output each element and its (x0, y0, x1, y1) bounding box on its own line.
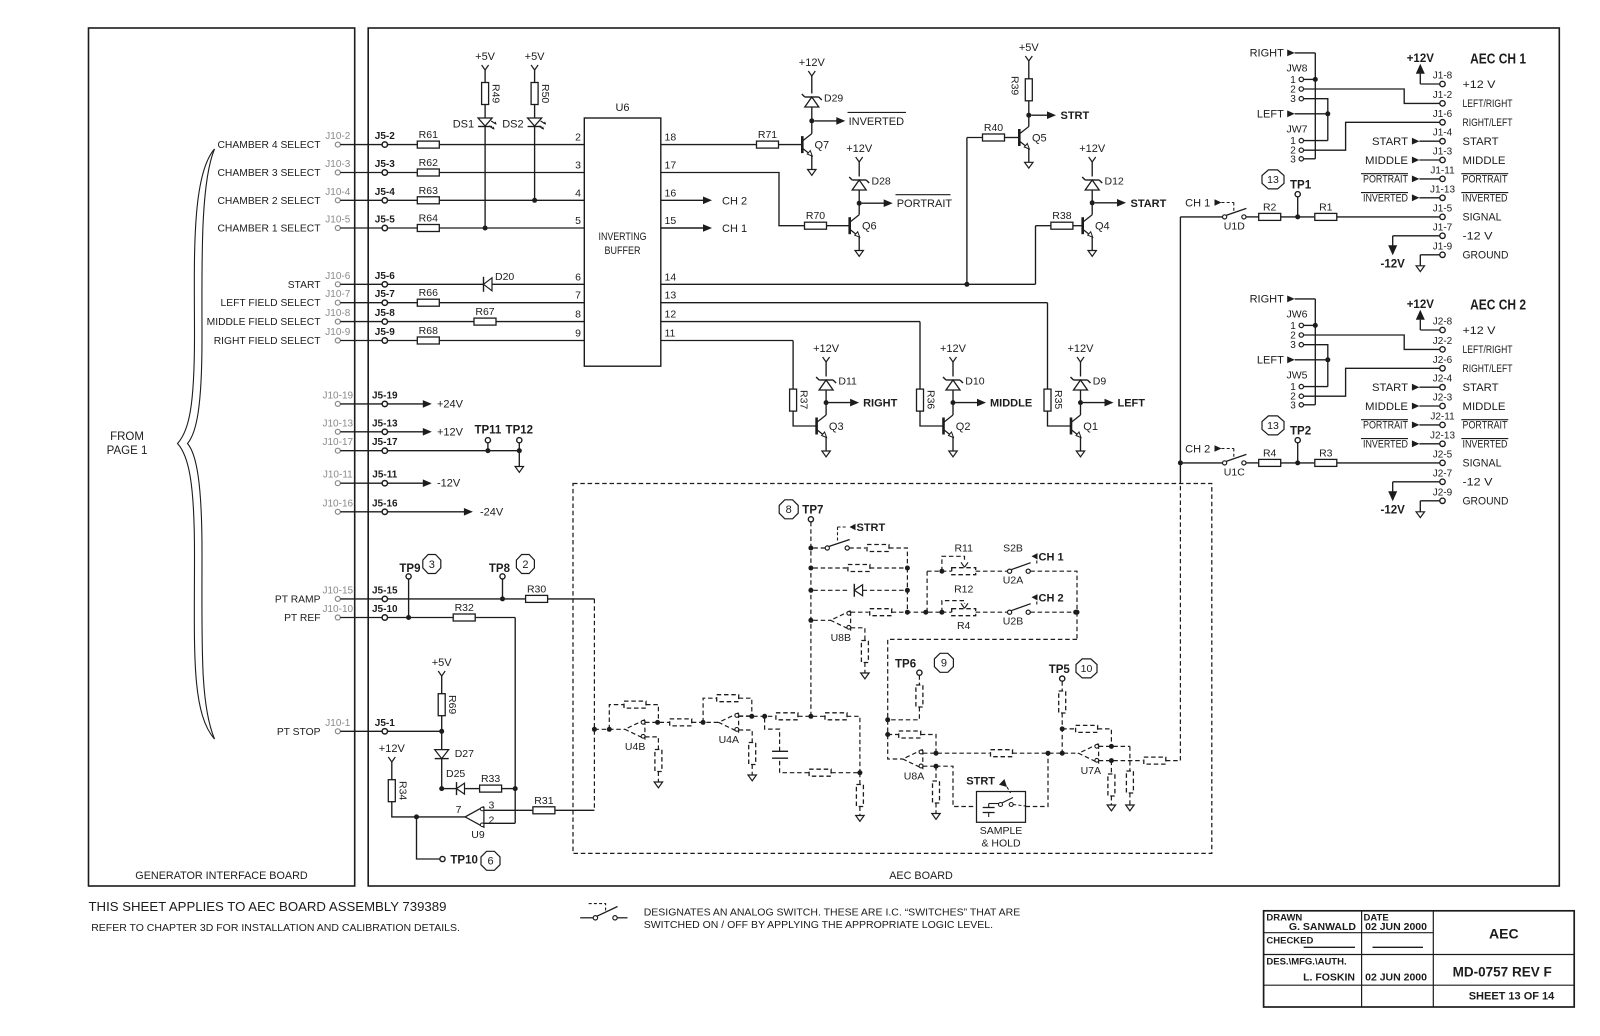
svg-text:SWITCHED ON / OFF BY APPLYING: SWITCHED ON / OFF BY APPLYING THE APPROP… (644, 919, 993, 931)
wire (1028, 149, 1030, 163)
svg-text:R40: R40 (984, 122, 1003, 134)
wire (952, 437, 954, 451)
svg-text:J5-4: J5-4 (375, 187, 395, 198)
svg-text:J5-15: J5-15 (372, 585, 398, 596)
svg-text:J5-3: J5-3 (375, 159, 395, 170)
svg-text:LEFT/RIGHT: LEFT/RIGHT (1463, 98, 1513, 110)
svg-text:PAGE 1: PAGE 1 (107, 445, 148, 457)
svg-text:THIS SHEET APPLIES TO AEC BOAR: THIS SHEET APPLIES TO AEC BOARD ASSEMBLY… (89, 899, 447, 914)
svg-text:INVERTED: INVERTED (1463, 439, 1508, 451)
wire (dashed) (870, 567, 908, 569)
svg-text:J2-7: J2-7 (1433, 468, 1453, 479)
svg-text:TP10: TP10 (450, 855, 478, 867)
svg-text:R4: R4 (1263, 447, 1277, 459)
wire (dashed) (798, 715, 824, 717)
svg-text:TP8: TP8 (489, 563, 511, 575)
wire (dashed) (813, 589, 848, 591)
svg-text:AEC CH 1: AEC CH 1 (1470, 52, 1526, 68)
wire (858, 237, 860, 251)
svg-text:TP1: TP1 (1290, 180, 1312, 192)
node (905, 588, 910, 593)
ground (1126, 805, 1134, 811)
svg-text:LEFT FIELD SELECT: LEFT FIELD SELECT (221, 298, 322, 309)
svg-text:PORTRAIT: PORTRAIT (1463, 420, 1508, 432)
svg-text:02 JUN 2000: 02 JUN 2000 (1365, 921, 1427, 933)
sample & hold box (977, 792, 1026, 823)
wire (dashed) (1061, 713, 1063, 753)
wire (555, 809, 594, 811)
svg-text:CHECKED: CHECKED (1266, 936, 1313, 947)
node (1075, 610, 1080, 615)
resistor R64 (417, 225, 439, 232)
node (939, 610, 944, 615)
wire (1314, 53, 1316, 159)
op-amp U8B (831, 611, 851, 630)
svg-text:LEFT/RIGHT: LEFT/RIGHT (1463, 344, 1513, 356)
node (808, 588, 813, 593)
svg-text:R12: R12 (954, 584, 973, 596)
wire (441, 716, 443, 731)
wire (1304, 324, 1316, 326)
wire (825, 403, 827, 415)
node (808, 714, 813, 719)
svg-text:J2-5: J2-5 (1433, 449, 1453, 460)
wire (dashed) (935, 766, 937, 781)
wire (dashed) (888, 707, 920, 720)
svg-text:CHAMBER 2 SELECT: CHAMBER 2 SELECT (218, 196, 322, 207)
resistor R4 (1259, 459, 1281, 466)
node (1060, 726, 1065, 731)
node (857, 770, 862, 775)
svg-text:INVERTED: INVERTED (1463, 193, 1508, 205)
ground (856, 816, 864, 822)
svg-text:J5-17: J5-17 (372, 437, 398, 448)
svg-text:CH 2: CH 2 (1039, 592, 1064, 604)
svg-text:START: START (1131, 198, 1167, 210)
svg-text:JW5: JW5 (1287, 370, 1308, 382)
svg-text:LEFT: LEFT (1257, 355, 1284, 367)
svg-text:SHEET 13 OF 14: SHEET 13 OF 14 (1469, 991, 1555, 1003)
resistor (U8A gnd, dashed) (933, 781, 940, 803)
wire (dashed) (692, 721, 719, 723)
svg-text:+12 V: +12 V (1463, 79, 1497, 91)
resistor (lower row, dashed) (809, 769, 831, 776)
resistor (row2, dashed) (848, 565, 870, 572)
svg-text:LEFT: LEFT (1118, 398, 1146, 410)
wire (dashed) (1061, 681, 1063, 691)
svg-text:INVERTED: INVERTED (849, 116, 904, 128)
op-amp U4B (625, 720, 645, 739)
svg-text:DESIGNATES AN ANALOG SWITCH. T: DESIGNATES AN ANALOG SWITCH. THESE ARE I… (644, 907, 1021, 919)
svg-text:J1-5: J1-5 (1433, 203, 1453, 214)
wire R63 row (388, 199, 418, 201)
node (1109, 744, 1114, 749)
svg-text:D29: D29 (824, 93, 843, 105)
net PORTRAIT (Q6 out) (862, 202, 884, 204)
svg-text:CHAMBER 3 SELECT: CHAMBER 3 SELECT (218, 168, 322, 179)
wire (1048, 411, 1072, 426)
svg-text:+12V: +12V (846, 143, 873, 155)
wire (dashed) (847, 716, 860, 772)
svg-text:FROM: FROM (110, 431, 144, 443)
resistor R37 (790, 389, 797, 411)
svg-text:U4B: U4B (625, 741, 645, 753)
node (939, 569, 944, 574)
resistor (TP5, dashed) (1059, 691, 1066, 713)
op-amp U9 (465, 807, 484, 828)
wire (1337, 462, 1440, 464)
resistor (U7A out, dashed) (1144, 757, 1166, 764)
wire (dashed) (859, 807, 861, 816)
wire (dashed) (918, 675, 920, 685)
wire (dashed) (1129, 793, 1131, 805)
diode D20 (483, 277, 485, 292)
svg-text:+5V: +5V (525, 51, 546, 63)
svg-text:Q3: Q3 (829, 421, 844, 433)
resistor (U7A gnd2, dashed) (1126, 771, 1133, 793)
resistor R32 (453, 614, 475, 621)
wire (811, 121, 813, 134)
resistor (U7A gnd1, dashed) (1108, 774, 1115, 796)
net RIGHT (Q3 out) (829, 402, 851, 404)
svg-text:U7A: U7A (1081, 765, 1101, 777)
svg-text:MIDDLE: MIDDLE (1365, 401, 1408, 413)
title block dividers (1361, 911, 1363, 1007)
svg-text:R33: R33 (481, 773, 500, 785)
svg-text:J10-2: J10-2 (325, 131, 350, 142)
svg-text:J1-8: J1-8 (1433, 71, 1453, 82)
transistor Q7 (801, 136, 804, 153)
wire (1314, 299, 1316, 405)
transistor Q5 (1018, 129, 1021, 146)
zener diode D12 (1091, 190, 1093, 203)
svg-text:Q2: Q2 (956, 421, 971, 433)
svg-text:-12V: -12V (1381, 504, 1406, 516)
svg-text:REFER TO CHAPTER 3D FOR INSTAL: REFER TO CHAPTER 3D FOR INSTALLATION AND… (91, 922, 460, 934)
wire (U8A bottom leg, dashed) (923, 765, 936, 767)
resistor R68 (417, 337, 439, 344)
svg-text:RIGHT: RIGHT (1250, 294, 1285, 306)
svg-text:+12V: +12V (799, 57, 826, 69)
node (Q1 collector) (1078, 400, 1083, 405)
svg-text:+12V: +12V (940, 343, 967, 355)
wire (dashed) (849, 547, 866, 549)
net INVERTED (Q7 out) (814, 120, 836, 122)
wire (441, 731, 443, 750)
wire (967, 137, 983, 139)
wire (dashed) (889, 548, 907, 568)
wire (dashed) (813, 567, 847, 569)
svg-text:J2-6: J2-6 (1433, 355, 1453, 366)
svg-text:R1: R1 (1319, 201, 1333, 213)
svg-text:D27: D27 (455, 748, 474, 760)
svg-text:10: 10 (1081, 663, 1093, 675)
wire (dashed) (923, 752, 990, 754)
svg-text:R70: R70 (806, 210, 825, 222)
svg-text:J5-13: J5-13 (372, 418, 398, 429)
wire (534, 105, 536, 119)
analog switch U1C (1223, 461, 1227, 465)
svg-text:PT STOP: PT STOP (277, 727, 321, 738)
node (934, 764, 939, 769)
svg-text:JW6: JW6 (1287, 309, 1308, 321)
analog switch (ramp row 1) (813, 547, 825, 549)
node (1109, 758, 1114, 763)
wire (dashed) (813, 619, 830, 621)
svg-text:J10-10: J10-10 (323, 604, 354, 615)
transistor Q6 (848, 217, 851, 234)
svg-text:13: 13 (1267, 174, 1279, 186)
svg-text:U6: U6 (615, 102, 629, 114)
svg-text:J1-9: J1-9 (1433, 241, 1453, 252)
wire (920, 411, 944, 426)
svg-text:J10-3: J10-3 (325, 159, 350, 170)
octagon 13 (TP1) (1262, 170, 1284, 189)
zener diode D9 (1080, 390, 1082, 403)
wire (496, 321, 584, 323)
wire R61 row (388, 144, 418, 146)
svg-text:D11: D11 (838, 376, 857, 388)
svg-text:+12V: +12V (1407, 53, 1435, 65)
wire (827, 225, 850, 227)
svg-text:MD-0757 REV F: MD-0757 REV F (1453, 965, 1552, 980)
svg-text:J1-4: J1-4 (1433, 128, 1453, 139)
wire (661, 302, 1048, 304)
wire (U4A gnd leg, dashed) (739, 730, 753, 743)
wire (1028, 115, 1030, 126)
svg-text:J5-16: J5-16 (372, 498, 398, 509)
IC U6 inverting buffer (584, 118, 661, 366)
svg-text:START: START (1372, 382, 1408, 394)
svg-text:3: 3 (1290, 94, 1296, 105)
svg-text:TP6: TP6 (895, 658, 916, 670)
svg-text:12: 12 (665, 309, 677, 321)
from page 1 brace (178, 149, 215, 739)
svg-text:PT REF: PT REF (284, 613, 320, 624)
svg-text:J10-8: J10-8 (325, 308, 350, 319)
svg-text:RIGHT/LEFT: RIGHT/LEFT (1463, 117, 1513, 129)
resistor R39 (1028, 101, 1030, 115)
wire (465, 788, 480, 790)
svg-text:J2-2: J2-2 (1433, 336, 1453, 347)
wire (dashed S&H out) (1026, 753, 1049, 806)
wire (1304, 345, 1328, 360)
resistor R63 (417, 197, 439, 204)
svg-text:U8B: U8B (831, 632, 851, 644)
net START (Q4 out) (1095, 202, 1117, 204)
transistor Q3 (815, 418, 818, 435)
svg-text:-12 V: -12 V (1463, 477, 1494, 489)
svg-text:J5-1: J5-1 (375, 718, 395, 729)
svg-text:J10-4: J10-4 (325, 187, 350, 198)
svg-text:CHAMBER 4 SELECT: CHAMBER 4 SELECT (218, 140, 322, 151)
svg-text:+5V: +5V (1019, 42, 1040, 54)
node (885, 717, 890, 722)
zener diode D11 (825, 390, 827, 403)
ground (Q6) (855, 251, 863, 257)
resistor R36 (917, 389, 924, 411)
analog switch U2B (1008, 610, 1012, 614)
ground (J1-9) (1420, 254, 1440, 256)
wire R62 row (388, 172, 418, 174)
svg-text:J10-1: J10-1 (325, 718, 350, 729)
wire (439, 172, 584, 174)
resistor (U4B out, dashed) (670, 719, 692, 726)
wire (439, 227, 584, 229)
svg-text:MIDDLE: MIDDLE (1463, 155, 1506, 167)
node (885, 732, 890, 737)
svg-text:CH 1: CH 1 (722, 223, 747, 235)
wire (442, 788, 457, 790)
svg-text:J1-3: J1-3 (1433, 147, 1453, 158)
svg-text:JW7: JW7 (1287, 124, 1308, 136)
net STRT control (row1 switch) (837, 527, 839, 541)
resistor (TP6, dashed) (916, 685, 923, 707)
node (1073, 610, 1078, 615)
zener diode D28 (858, 190, 860, 203)
resistor R71 (757, 141, 779, 148)
node (592, 727, 597, 732)
svg-text:SAMPLE: SAMPLE (980, 825, 1023, 837)
wire (dashed TP7 column) (810, 522, 812, 716)
svg-text:+12V: +12V (1079, 143, 1106, 155)
svg-text:-12V: -12V (1381, 258, 1406, 270)
diode D27 (435, 750, 449, 759)
svg-text:+24V: +24V (437, 398, 464, 410)
svg-text:2: 2 (522, 559, 528, 571)
resistor R66 (417, 299, 439, 306)
wire (PT STOP) (388, 730, 442, 732)
svg-text:PORTRAIT: PORTRAIT (1463, 174, 1508, 186)
wire (1281, 462, 1315, 464)
svg-text:Q1: Q1 (1083, 421, 1098, 433)
generator interface board outline (89, 28, 355, 886)
svg-text:8: 8 (575, 309, 581, 321)
svg-text:J1-6: J1-6 (1433, 109, 1453, 120)
svg-text:R32: R32 (455, 602, 474, 614)
svg-text:STRT: STRT (1061, 110, 1090, 122)
transistor Q1 (1070, 418, 1073, 435)
svg-text:+5V: +5V (475, 51, 496, 63)
svg-text:G. SANWALD: G. SANWALD (1289, 921, 1356, 933)
svg-text:Q7: Q7 (815, 140, 830, 152)
wire (1327, 360, 1329, 387)
svg-text:CHAMBER 1 SELECT: CHAMBER 1 SELECT (218, 224, 322, 235)
wire (dashed) (863, 589, 908, 591)
svg-text:3: 3 (1290, 154, 1296, 165)
svg-text:17: 17 (665, 160, 677, 172)
test point TP10 (440, 856, 445, 861)
svg-text:J5-11: J5-11 (372, 470, 397, 481)
svg-text:3: 3 (1290, 340, 1296, 351)
svg-text:J2-8: J2-8 (1433, 317, 1453, 328)
resistor R49 (482, 83, 489, 105)
node (923, 610, 928, 615)
wire (779, 144, 803, 146)
svg-text:+12V: +12V (437, 426, 464, 438)
zener diode D29 (811, 107, 813, 121)
wire (1337, 216, 1440, 218)
wire (1047, 303, 1049, 389)
resistor R62 (417, 169, 439, 176)
node (414, 814, 419, 819)
wire (439, 144, 584, 146)
svg-text:2: 2 (575, 132, 581, 144)
svg-text:PT RAMP: PT RAMP (275, 594, 321, 605)
svg-text:J10-6: J10-6 (325, 271, 350, 282)
wire (661, 173, 804, 226)
svg-text:INVERTING: INVERTING (599, 231, 647, 243)
resistor (U8A out, dashed) (991, 750, 1013, 757)
node (607, 727, 612, 732)
node (934, 751, 939, 756)
resistor R2 (1259, 213, 1281, 220)
svg-text:R63: R63 (419, 185, 438, 197)
svg-text:J2-11: J2-11 (1430, 411, 1455, 422)
wire (U4B gnd leg, dashed) (645, 737, 658, 750)
wire (dashed) (976, 570, 1008, 572)
svg-text:RIGHT: RIGHT (1250, 48, 1285, 60)
resistor R33 (480, 785, 502, 792)
wire (392, 802, 465, 817)
svg-text:-12 V: -12 V (1463, 231, 1494, 243)
LED DS1 (478, 118, 492, 126)
svg-text:U2A: U2A (1003, 575, 1023, 587)
svg-text:+12V: +12V (1068, 343, 1095, 355)
node (905, 610, 910, 615)
wire (1091, 237, 1093, 251)
svg-text:R71: R71 (758, 129, 777, 141)
svg-text:U1C: U1C (1224, 466, 1245, 478)
svg-text:4: 4 (575, 187, 581, 199)
resistor R50 (531, 83, 538, 105)
pot loop (R11 wiper) (942, 556, 965, 571)
svg-text:START: START (1463, 382, 1499, 394)
svg-text:9: 9 (575, 328, 581, 340)
node (905, 566, 910, 571)
svg-text:-12V: -12V (437, 478, 461, 490)
wire (1304, 404, 1316, 406)
wire (1180, 462, 1222, 464)
svg-text:5: 5 (575, 215, 581, 227)
svg-text:13: 13 (1267, 420, 1279, 432)
svg-text:PORTRAIT: PORTRAIT (1363, 174, 1408, 186)
capacitor (integrator) (772, 750, 788, 752)
wire (534, 127, 536, 201)
feedback (U8A, dashed) (888, 734, 899, 736)
wire (484, 105, 486, 119)
svg-text:J10-9: J10-9 (325, 327, 350, 338)
svg-text:R4: R4 (957, 620, 971, 632)
LED DS2 (528, 118, 542, 126)
node (808, 566, 813, 571)
svg-text:SIGNAL: SIGNAL (1463, 212, 1502, 224)
svg-text:RIGHT: RIGHT (863, 398, 898, 410)
svg-text:R69: R69 (446, 695, 458, 714)
svg-text:3: 3 (429, 559, 435, 571)
svg-text:GROUND: GROUND (1463, 250, 1509, 262)
svg-text:15: 15 (665, 215, 677, 227)
svg-text:8: 8 (786, 504, 792, 516)
svg-text:D9: D9 (1093, 376, 1107, 388)
svg-text:7: 7 (456, 804, 462, 816)
wire (1246, 216, 1259, 218)
svg-text:J10-15: J10-15 (323, 585, 354, 596)
svg-text:R34: R34 (396, 781, 408, 800)
wire (825, 437, 827, 451)
svg-text:D10: D10 (965, 376, 984, 388)
svg-text:J10-19: J10-19 (323, 390, 354, 401)
